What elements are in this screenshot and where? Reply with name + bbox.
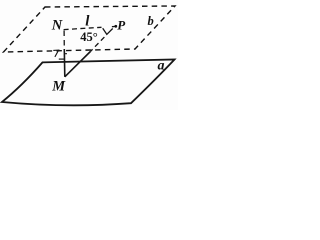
point P dot [114,25,117,28]
line l (dashed, N to P) [64,27,102,29]
angle arc at P (v-shape) [103,28,113,34]
right-angle mark at plane b crossing (7-shape) [53,50,58,57]
right-angle tick right of NM below plane b edge [65,53,67,55]
svg-text:a: a [158,59,165,74]
svg-text:b: b [148,14,154,28]
svg-text:l: l [85,13,90,29]
right-angle mark at plane a (tick) [59,58,65,60]
segment PM solid part (between planes, down to M) [65,52,91,77]
plane a (lower solid parallelogram) [2,60,175,106]
segment NM solid part [63,49,66,77]
svg-text:M: M [51,78,66,94]
svg-text:45°: 45° [80,30,98,44]
plane b (upper dashed parallelogram) [4,6,176,52]
segment NM dashed part [63,31,65,50]
svg-text:N: N [51,18,63,34]
segment PM dashed part (inside plane b region) [90,35,106,52]
svg-text:P: P [117,18,126,33]
